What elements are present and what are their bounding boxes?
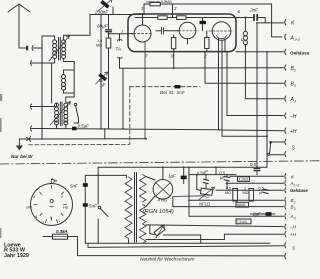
svg-text:0,5µF: 0,5µF: [78, 124, 90, 129]
svg-text:+H: +H: [290, 232, 297, 237]
svg-text:Jahr 1929: Jahr 1929: [4, 253, 29, 259]
svg-text:7: 7: [145, 54, 148, 59]
svg-text:2: 2: [203, 54, 207, 59]
svg-text:Nur bei W: Nur bei W: [11, 154, 33, 159]
svg-text:(RGN 1054): (RGN 1054): [143, 209, 174, 215]
svg-text:60kΩ: 60kΩ: [237, 203, 246, 207]
svg-text:2: 2: [61, 195, 63, 199]
svg-text:1µF: 1µF: [168, 174, 176, 179]
svg-text:3: 3: [294, 207, 296, 211]
svg-text:TA: TA: [116, 47, 122, 52]
svg-text:K: K: [291, 174, 295, 179]
svg-text:0,5: 0,5: [250, 162, 257, 167]
svg-text:S: S: [292, 146, 296, 152]
svg-text:3: 3: [294, 217, 296, 221]
svg-text:5nF: 5nF: [70, 184, 78, 189]
svg-text:3: 3: [294, 100, 296, 104]
svg-text:1,5: 1,5: [97, 39, 102, 43]
svg-text:5nF: 5nF: [89, 204, 97, 209]
svg-text:Bei St. 5nF: Bei St. 5nF: [160, 90, 185, 95]
svg-text:Ha: Ha: [63, 206, 69, 210]
svg-text:200pF: 200pF: [94, 10, 109, 15]
svg-text:6: 6: [55, 178, 58, 183]
svg-text:K: K: [291, 21, 295, 27]
svg-text:0,5: 0,5: [226, 187, 231, 191]
svg-text:L: L: [241, 37, 244, 42]
svg-text:Gehäuse: Gehäuse: [290, 188, 308, 193]
svg-text:5: 5: [50, 216, 52, 220]
svg-text:7,5 kΩ: 7,5 kΩ: [237, 220, 248, 224]
svg-text:2: 2: [173, 6, 177, 11]
svg-text:NF1Ω: NF1Ω: [199, 202, 211, 207]
svg-text:60µF: 60µF: [97, 24, 109, 29]
svg-text:4: 4: [35, 215, 37, 219]
svg-text:2nF: 2nF: [249, 8, 259, 13]
svg-text:MΩ: MΩ: [96, 44, 102, 48]
svg-text:µF: µF: [220, 175, 226, 180]
svg-text:Gehäuse: Gehäuse: [290, 51, 310, 56]
svg-text:–H: –H: [289, 225, 297, 230]
svg-text:0,5: 0,5: [259, 187, 264, 191]
svg-text:6: 6: [238, 9, 241, 14]
svg-text:1: 1: [244, 187, 246, 191]
svg-text:S: S: [292, 246, 296, 251]
svg-text:oW: oW: [26, 206, 32, 210]
svg-text:1: 1: [58, 219, 60, 223]
svg-text:1: 1: [121, 29, 123, 34]
svg-text:MΩ: MΩ: [243, 191, 249, 195]
svg-text:1,2kΩ: 1,2kΩ: [239, 177, 249, 181]
svg-text:3: 3: [33, 195, 35, 199]
svg-text:1+2: 1+2: [294, 38, 300, 42]
svg-text:pF: pF: [99, 82, 106, 88]
svg-text:–H: –H: [289, 114, 297, 120]
svg-text:Netzteil für Wechselstrom: Netzteil für Wechselstrom: [140, 257, 195, 263]
svg-text:µF: µF: [259, 191, 264, 195]
svg-text:1+2: 1+2: [294, 184, 300, 188]
svg-text:2: 2: [293, 69, 296, 73]
svg-text:3: 3: [294, 84, 296, 88]
svg-text:4 NG: 4 NG: [158, 198, 169, 203]
svg-text:7: 7: [42, 221, 44, 225]
svg-text:+H: +H: [290, 129, 297, 135]
svg-text:0,35A: 0,35A: [56, 229, 68, 234]
svg-text:75Ω: 75Ω: [202, 193, 210, 199]
svg-text:2µF: 2µF: [252, 212, 261, 217]
svg-text:Innen an 0,3MΩ: Innen an 0,3MΩ: [146, 0, 172, 4]
svg-text:MΩ: MΩ: [225, 191, 231, 195]
